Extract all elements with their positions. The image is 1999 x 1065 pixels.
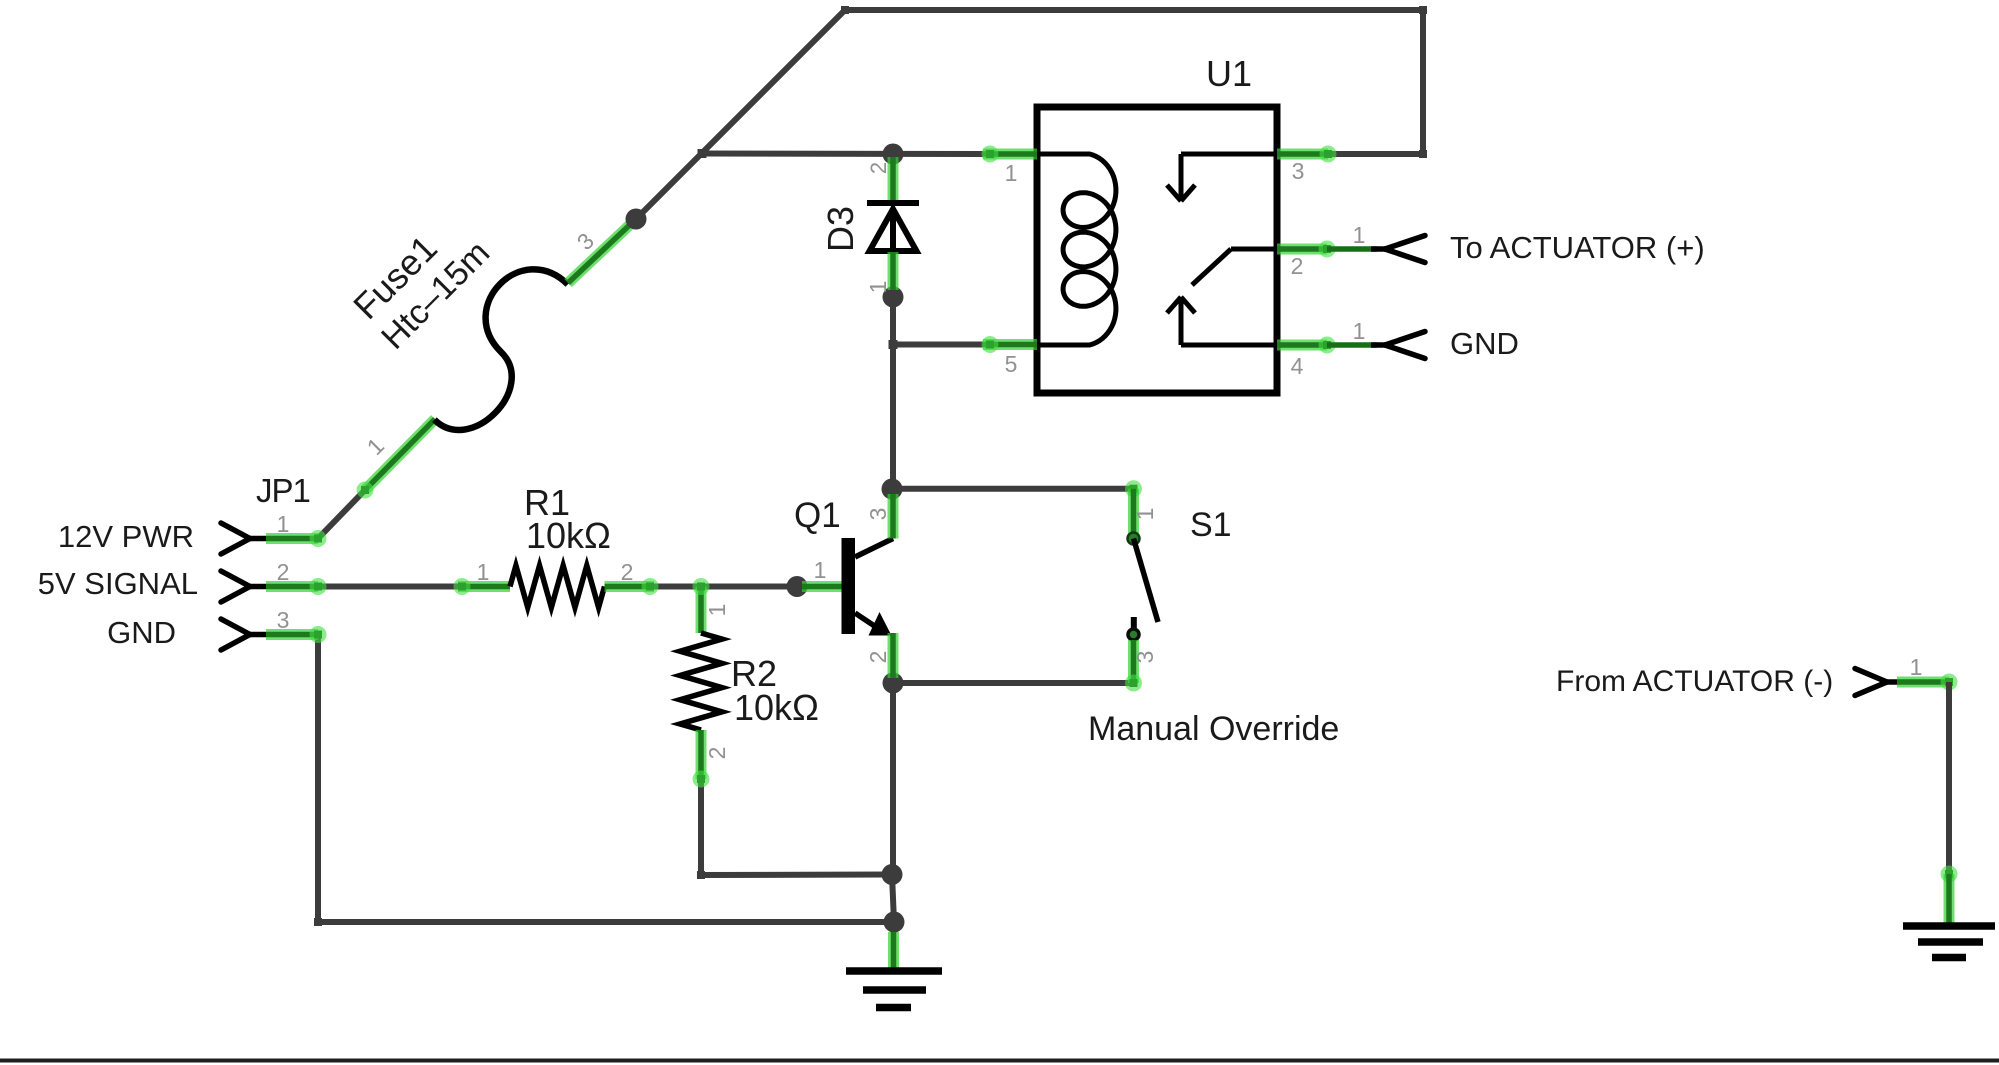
label JP1 pin 3: [277, 607, 290, 633]
ground right leg: [1941, 866, 1958, 925]
label U1 pin 5: [1005, 351, 1018, 377]
relay U1 common lever pin2: [1192, 249, 1277, 285]
node junction emitter net upper: [882, 864, 903, 885]
label S1: [1190, 506, 1232, 544]
label U1 pin 3: [1292, 158, 1305, 184]
resistor R1 pin2 leg: [605, 578, 659, 595]
wire From-ACTUATOR down: [1946, 682, 1952, 874]
relay U1 pin4 leg: [1277, 337, 1336, 354]
wire horizontal to relay pin1: [702, 151, 983, 158]
svg-text:U1: U1: [1206, 53, 1252, 94]
svg-text:1: 1: [865, 281, 891, 294]
diode D3 pin2 leg: [888, 157, 899, 203]
svg-text:2: 2: [1291, 253, 1304, 279]
wire pin3 terminal to corner: [1328, 151, 1423, 157]
svg-text:1: 1: [277, 511, 290, 537]
ground center leg: [888, 932, 899, 971]
node junction fuse-diagonal: [698, 149, 707, 158]
switch S1 pivot: [1128, 533, 1140, 545]
label D3 pin 1: [865, 281, 891, 294]
label 12V PWR: [58, 519, 194, 554]
label Q1: [794, 496, 841, 535]
connector JP1 pin3 arrow: [221, 619, 266, 650]
node corner top-left: [841, 6, 849, 14]
wire to relay pin5: [893, 342, 983, 348]
wire diagonal from fuse to top: [636, 10, 845, 219]
label D3: [820, 206, 861, 252]
fuse Fuse1 pin1 leg: [357, 419, 436, 499]
svg-text:Q1: Q1: [794, 496, 841, 535]
svg-text:1: 1: [1353, 318, 1366, 344]
switch S1 pin3 leg: [1125, 640, 1142, 692]
relay U1 coil: [1040, 154, 1116, 345]
label JP1: [256, 472, 310, 509]
resistor R2 pin2 leg: [693, 730, 710, 788]
switch S1 pin1 leg: [1125, 480, 1142, 535]
svg-text:S1: S1: [1190, 506, 1232, 544]
svg-text:5V SIGNAL: 5V SIGNAL: [38, 566, 198, 601]
label S1 pin 1: [1132, 508, 1158, 521]
transistor Q1 collector leg: [888, 494, 899, 539]
svg-text:1: 1: [814, 557, 827, 583]
wire JP1 pin1 to fuse: [318, 490, 365, 539]
wire emitter down: [890, 683, 896, 875]
svg-text:1: 1: [1910, 654, 1923, 680]
relay U1 contact pin4: [1167, 297, 1277, 345]
svg-text:12V PWR: 12V PWR: [58, 519, 194, 554]
label R2: [731, 653, 777, 694]
transistor Q1 emitter leg: [888, 633, 899, 678]
label R2 pin 2: [704, 747, 730, 760]
label 5V SIGNAL: [38, 566, 198, 601]
svg-text:To ACTUATOR (+): To ACTUATOR (+): [1450, 230, 1705, 265]
transistor Q1 collector: [855, 539, 893, 558]
svg-text:10kΩ: 10kΩ: [526, 515, 611, 556]
wire collector to S1: [893, 486, 1134, 492]
node corner R2 bottom: [697, 871, 705, 879]
label S1 pin 3: [1132, 651, 1158, 664]
node junction ground net: [884, 912, 905, 933]
wire GND bottom horizontal: [318, 919, 894, 925]
label To-ACTUATOR pin 1: [1353, 222, 1366, 248]
svg-text:1: 1: [362, 433, 389, 460]
fuse Fuse1 pin3 leg: [568, 219, 636, 283]
ground center symbol: [846, 971, 942, 1008]
diode D3 pin1 leg: [888, 252, 899, 290]
transistor Q1 base bar: [842, 538, 856, 634]
label R1 value: [526, 515, 611, 556]
wire top horizontal: [845, 7, 1423, 13]
label Manual Override: [1088, 710, 1339, 748]
wire right vertical to relay pin3: [1420, 10, 1426, 154]
resistor R2 body: [680, 633, 722, 730]
wire R1 to Q1 base: [654, 584, 802, 590]
resistor R1 body: [510, 566, 605, 608]
relay U1 contact pin3: [1167, 154, 1277, 201]
svg-text:2: 2: [865, 651, 891, 664]
svg-text:1: 1: [1005, 160, 1018, 186]
label Q1 pin 2: [865, 651, 891, 664]
svg-text:2: 2: [277, 559, 290, 585]
node junction collector: [882, 479, 903, 500]
label R1 pin 1: [477, 559, 490, 585]
node fuse top junction: [626, 209, 647, 230]
diode D3 cathode bar: [867, 200, 919, 206]
wire emitter to S1 pin3: [893, 680, 1134, 686]
relay U1 pin5 leg: [982, 336, 1038, 353]
node corner GND bottom-left: [314, 918, 322, 926]
svg-text:10kΩ: 10kΩ: [734, 687, 819, 728]
wire between junctions: [892, 875, 894, 923]
transistor Q1 base leg: [802, 581, 842, 592]
bottom border line: [0, 1059, 1999, 1063]
svg-text:3: 3: [1292, 158, 1305, 184]
svg-text:2: 2: [704, 747, 730, 760]
wire R2 bottom lead: [698, 779, 704, 875]
label R2 value: [734, 687, 819, 728]
label fuse pin 1: [362, 433, 389, 460]
node corner top-right: [1419, 6, 1427, 14]
svg-text:1: 1: [1132, 508, 1158, 521]
label To ACTUATOR (+): [1450, 230, 1705, 265]
svg-text:2: 2: [866, 162, 891, 174]
connector From-ACTUATOR arrow: [1855, 669, 1897, 696]
label U1 pin 1: [1005, 160, 1018, 186]
svg-text:5: 5: [1005, 351, 1018, 377]
connector From-ACTUATOR leg: [1897, 674, 1958, 691]
fuse Fuse1 body: [400, 250, 595, 446]
label R1 pin 2: [621, 559, 634, 585]
switch S1 contact: [1128, 617, 1139, 640]
svg-text:3: 3: [1132, 651, 1158, 664]
label Q1 pin 3: [865, 508, 891, 521]
node junction relay pin5 branch: [889, 340, 898, 349]
connector JP1 pin1 leg: [266, 530, 327, 547]
transistor Q1 emitter: [855, 612, 892, 636]
label R2 pin 1: [704, 604, 730, 617]
connector JP1 pin1 arrow: [221, 523, 266, 554]
svg-text:2: 2: [621, 559, 634, 585]
relay U1 pin3 leg: [1277, 146, 1337, 163]
label U1 pin 4: [1291, 353, 1304, 379]
svg-text:From ACTUATOR (-): From ACTUATOR (-): [1556, 665, 1833, 698]
label GND right: [1450, 326, 1519, 361]
label R1: [524, 482, 570, 523]
svg-text:GND: GND: [1450, 326, 1519, 361]
svg-text:Manual Override: Manual Override: [1088, 710, 1339, 748]
label U1: [1206, 53, 1252, 94]
label From ACTUATOR (-): [1556, 665, 1833, 698]
label fuse pin 3: [572, 228, 599, 255]
relay U1 pin1 leg: [982, 146, 1038, 163]
node D3 anode junction: [883, 287, 904, 308]
svg-text:GND: GND: [107, 615, 176, 650]
svg-text:1: 1: [1353, 222, 1366, 248]
svg-text:3: 3: [277, 607, 290, 633]
connector JP1 pin2 leg: [266, 578, 327, 595]
diode D3 body: [870, 209, 917, 251]
wire collector up to D3: [890, 297, 896, 489]
label U1 pin 2: [1291, 253, 1304, 279]
label Fuse1 value: [344, 203, 497, 356]
svg-text:3: 3: [865, 508, 891, 521]
label JP1 pin 1: [277, 511, 290, 537]
label GND-right pin 1: [1353, 318, 1366, 344]
wire R2 bottom horizontal: [701, 872, 892, 879]
wire 5V signal to R1: [318, 584, 458, 590]
svg-text:JP1: JP1: [256, 472, 310, 509]
label D3 pin 2: [866, 162, 891, 174]
relay U1 box: [1037, 107, 1277, 393]
resistor R1 pin1 leg: [454, 578, 511, 595]
resistor R2 pin1 leg: [693, 578, 710, 633]
label From-ACTUATOR pin 1: [1910, 654, 1923, 680]
connector To-ACTUATOR leg: [1327, 246, 1377, 252]
connector JP1 pin3 leg: [266, 626, 327, 643]
label GND left: [107, 615, 176, 650]
label Q1 pin 1: [814, 557, 827, 583]
label JP1 pin 2: [277, 559, 290, 585]
wire GND vertical from JP1: [315, 635, 321, 923]
svg-text:1: 1: [477, 559, 490, 585]
node junction emitter: [883, 673, 904, 694]
svg-text:D3: D3: [820, 206, 861, 252]
connector To-ACTUATOR arrow: [1371, 236, 1425, 263]
node junction D3/relay pin1: [883, 144, 904, 165]
relay U1 pin2 leg: [1277, 241, 1336, 258]
node junction base/R2: [787, 576, 808, 597]
switch S1 lever: [1134, 539, 1159, 623]
ground right symbol: [1903, 926, 1995, 958]
connector JP1 pin2 arrow: [221, 571, 266, 602]
svg-text:4: 4: [1291, 353, 1304, 379]
connector GND-right leg: [1327, 342, 1377, 348]
svg-text:1: 1: [704, 604, 730, 617]
node corner right: [1419, 150, 1427, 158]
connector GND-right arrow: [1371, 332, 1425, 359]
